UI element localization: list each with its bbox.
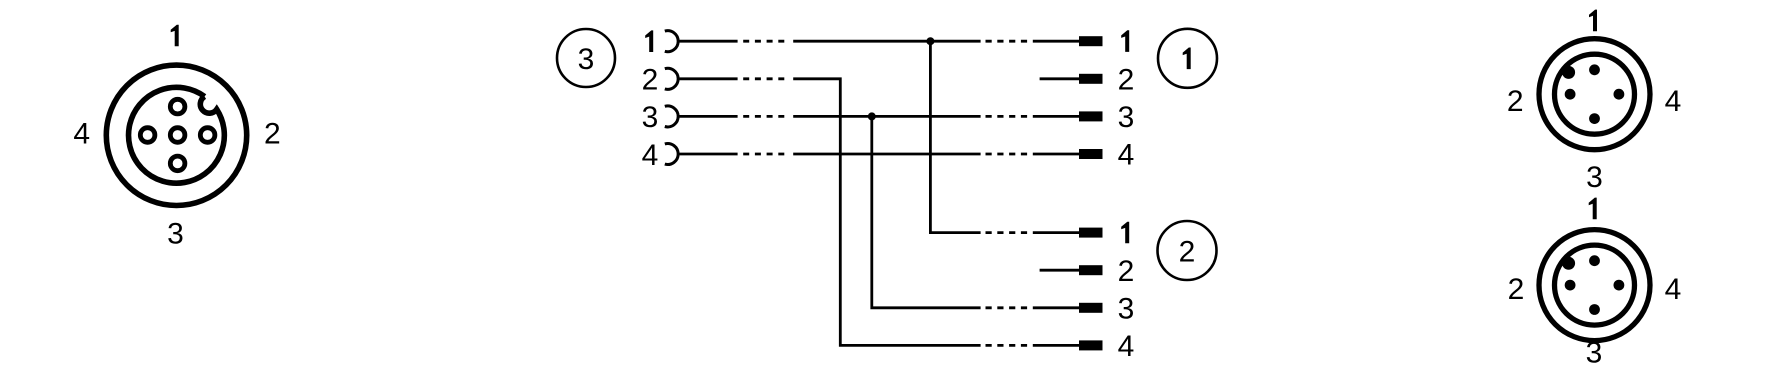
wire 3 lower dashed segment (986, 306, 1028, 309)
wire 2 dashed segment (743, 77, 784, 80)
keyway bump (1562, 66, 1575, 79)
svg-text:4: 4 (73, 117, 90, 150)
junction dot wire 1 (926, 37, 934, 45)
wire 4 solid to pin (1033, 153, 1079, 156)
wire 3 dashed segment right (986, 115, 1028, 118)
stub wire lower pin 2 (1040, 269, 1079, 272)
wire 3 solid to pin (1033, 115, 1079, 118)
svg-text:3: 3 (1118, 293, 1135, 326)
label 1 in circle (1183, 48, 1191, 70)
wire 4 solid from contact (678, 153, 738, 156)
pin dot top (1589, 64, 1600, 75)
svg-text:4: 4 (1665, 85, 1682, 118)
wire 4 solid middle run (793, 153, 980, 156)
input contact 1 (665, 31, 678, 52)
pin dot bottom (1589, 304, 1600, 315)
pin terminal 2 (upper) (1079, 74, 1103, 84)
svg-text:2: 2 (1507, 85, 1524, 118)
socket pin bottom (170, 156, 185, 171)
wire 1 lower solid to pin (1033, 231, 1079, 234)
wire 2 lower solid to pin (1033, 344, 1079, 347)
wire 3 solid middle run (793, 115, 980, 118)
pin terminal 3 (upper) (1079, 111, 1103, 121)
label pin 1 (bottom right connector) (1589, 198, 1597, 220)
svg-text:3: 3 (1586, 337, 1603, 370)
socket pin left (140, 128, 155, 143)
wire 1 solid middle run (793, 40, 980, 43)
svg-text:2: 2 (1179, 235, 1196, 268)
wire 3 branch vertical to lower pin 3 row (872, 116, 981, 307)
wire 1 lower dashed segment (986, 231, 1028, 234)
wire 3 solid from contact (678, 115, 738, 118)
wire 1 solid from contact (678, 40, 738, 43)
pin dot right (1614, 89, 1625, 100)
pin terminal 4 (upper) (1079, 149, 1103, 159)
port circle 1 (1158, 29, 1217, 88)
pin terminal 1 (lower) (1079, 228, 1103, 238)
pin terminal 2 (lower) (1079, 265, 1103, 275)
label pin 1 (top right connector) (1589, 10, 1597, 32)
svg-text:4: 4 (642, 139, 659, 172)
wire 4 dashed segment (743, 153, 784, 156)
input contact 2 (665, 68, 678, 89)
upper pin label 1 (1121, 30, 1129, 52)
pin dot left (1565, 280, 1576, 291)
svg-text:3: 3 (1586, 161, 1603, 194)
outer circle (1539, 230, 1650, 341)
pin dot right (1614, 280, 1625, 291)
wire 1 dashed segment right (986, 40, 1028, 43)
port circle 2 (1158, 221, 1217, 280)
wire 3 lower solid to pin (1033, 306, 1079, 309)
svg-text:2: 2 (1118, 255, 1135, 288)
inner circle with keyway notch (129, 87, 225, 183)
port circle 3 (557, 29, 615, 87)
svg-text:4: 4 (1118, 139, 1135, 172)
pin terminal 1 (upper) (1079, 36, 1103, 46)
wire 3 dashed segment (743, 115, 784, 118)
connector X2 (right bottom, male face view) (1539, 230, 1650, 341)
svg-text:3: 3 (167, 218, 184, 251)
keyway bump (1562, 257, 1575, 270)
pin terminal 4 (lower) (1079, 340, 1103, 350)
junction dot wire 3 (868, 112, 876, 120)
svg-text:3: 3 (642, 101, 659, 134)
lower pin label 1 (1121, 222, 1129, 244)
inner circle (1555, 54, 1635, 134)
svg-text:2: 2 (1508, 273, 1525, 306)
pin terminal 3 (lower) (1079, 303, 1103, 313)
outer circle (106, 65, 246, 205)
socket pin right (200, 128, 215, 143)
svg-text:2: 2 (264, 117, 281, 150)
label pin 1 (left connector) (171, 25, 179, 47)
inner circle (1555, 245, 1635, 325)
wire 2 solid run with corner down to lower pin 4 row (793, 79, 980, 346)
wire 1 solid to pin (1033, 40, 1079, 43)
svg-text:2: 2 (642, 64, 659, 97)
input label 1 (645, 30, 653, 52)
pin dot top (1589, 255, 1600, 266)
socket pin top (170, 99, 185, 114)
input contact 3 (665, 106, 678, 127)
wire 4 dashed segment right (986, 153, 1028, 156)
svg-text:2: 2 (1118, 64, 1135, 97)
svg-text:3: 3 (1118, 101, 1135, 134)
svg-text:3: 3 (578, 43, 595, 76)
wire 2 solid from contact (678, 77, 738, 80)
svg-text:4: 4 (1118, 330, 1135, 363)
connector X3 (left, female face view) (106, 65, 246, 205)
svg-text:4: 4 (1665, 273, 1682, 306)
wire 1 dashed segment (743, 40, 784, 43)
socket pin center (170, 128, 185, 143)
pin dot left (1565, 89, 1576, 100)
pin dot bottom (1589, 113, 1600, 124)
stub wire upper pin 2 (1040, 77, 1079, 80)
connector X1 (right top, male face view) (1539, 39, 1650, 150)
wire 2 lower dashed segment (986, 344, 1028, 347)
outer circle (1539, 39, 1650, 150)
wire 1 branch vertical to lower pin 1 row (930, 41, 980, 232)
input contact 4 (665, 144, 678, 165)
